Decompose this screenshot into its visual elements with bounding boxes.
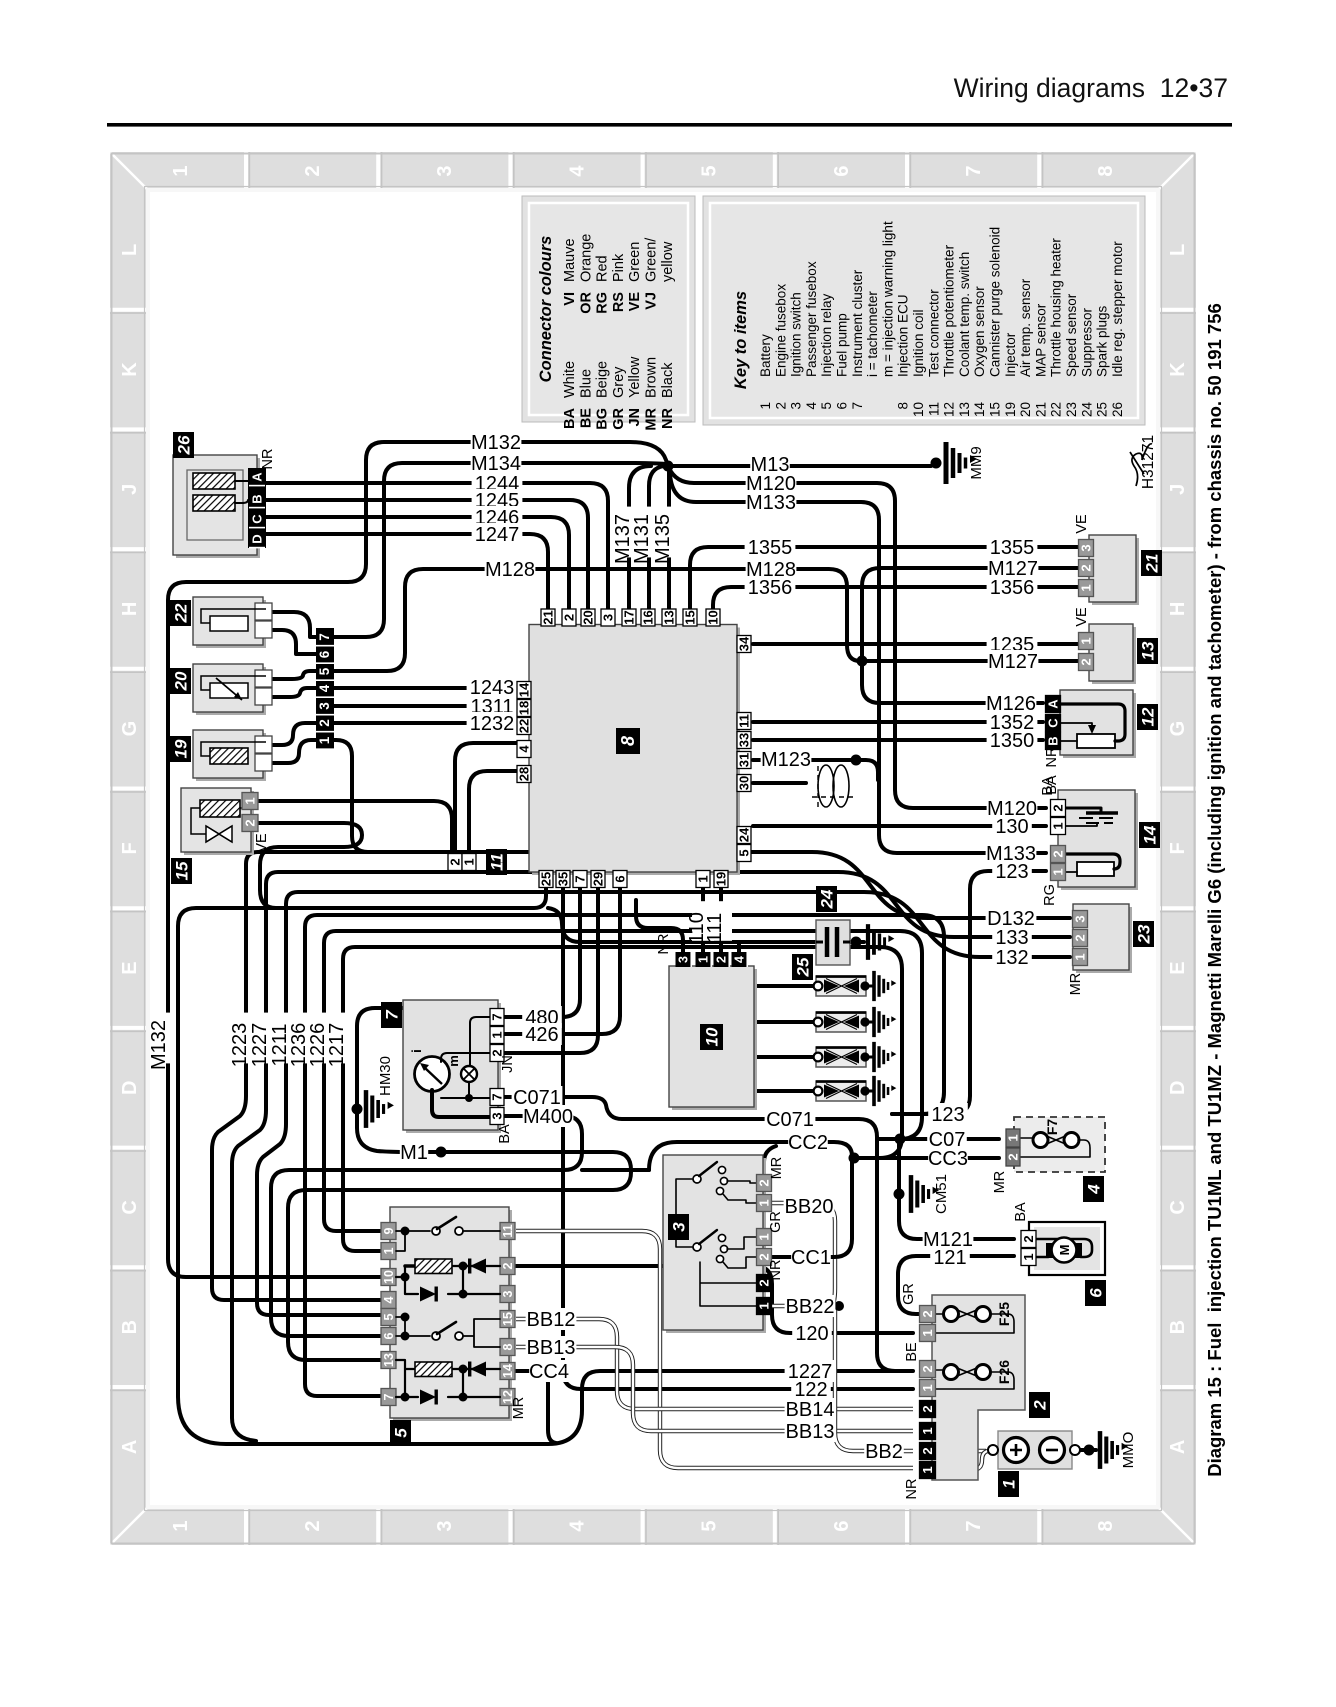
switch pin 1 — [757, 1298, 772, 1315]
net label M132 — [471, 431, 522, 453]
net label M123 — [761, 748, 812, 770]
svg-text:2: 2 — [757, 1179, 772, 1186]
ECU top pin 17 — [622, 609, 636, 626]
wire 1236 : band to relay pin 7 — [305, 915, 944, 1396]
wire M1 to relay pin13 — [288, 1109, 631, 1360]
net label 1350 — [987, 729, 1038, 751]
net label 123 — [928, 1103, 968, 1125]
svg-text:30: 30 — [737, 776, 752, 790]
svg-text:2: 2 — [317, 719, 332, 727]
svg-text:9: 9 — [382, 1227, 396, 1234]
heater symbol — [1066, 808, 1101, 812]
svg-text:m = injection warning light: m = injection warning light — [880, 221, 895, 377]
pump pin 2 — [1021, 1231, 1036, 1248]
net label CC1 — [791, 1246, 831, 1268]
wire CC3 line — [854, 1156, 999, 1160]
svg-text:MAP sensor: MAP sensor — [1033, 303, 1048, 377]
svg-text:MR: MR — [511, 1397, 527, 1420]
item 7 instrument cluster — [406, 1003, 501, 1133]
svg-text:7: 7 — [573, 875, 588, 882]
ECU bottom pin 1 — [696, 871, 710, 888]
svg-text:D: D — [250, 534, 265, 543]
net label 120 — [792, 1322, 832, 1344]
svg-text:4: 4 — [317, 684, 332, 692]
ECU bottom pin 6 — [613, 871, 627, 888]
MAP pin 1 — [1079, 580, 1094, 597]
svg-text:6: 6 — [831, 1520, 853, 1531]
svg-text:15: 15 — [173, 861, 192, 880]
svg-text:2: 2 — [773, 402, 788, 410]
svg-text:BB13: BB13 — [527, 1337, 576, 1359]
ECU right pin 24 — [737, 827, 751, 844]
ECU bottom pin 19 — [714, 871, 728, 888]
svg-text:14: 14 — [972, 402, 987, 418]
svg-text:3: 3 — [1079, 544, 1094, 551]
relay pin 14 — [500, 1363, 515, 1380]
svg-text:132: 132 — [995, 947, 1028, 969]
speed pin 2 — [1073, 930, 1088, 947]
svg-text:Green: Green — [627, 242, 643, 282]
wire 1350 ECU pin33 to pot pin B — [753, 738, 1043, 742]
svg-text:2: 2 — [1079, 564, 1094, 571]
svg-text:2: 2 — [1073, 934, 1088, 941]
svg-text:NR: NR — [904, 1479, 920, 1500]
svg-text:D: D — [119, 1081, 141, 1095]
svg-text:Battery: Battery — [758, 334, 773, 377]
svg-text:2: 2 — [715, 956, 729, 963]
relay pin 5 — [381, 1309, 396, 1326]
ground MM9 — [946, 442, 977, 484]
wire 111 ECU pin19 to coil pin2 — [719, 886, 723, 952]
fusebox pin BB13 — [920, 1423, 936, 1440]
thin wire BB20/BB22/BB2 — [772, 1203, 913, 1451]
spark plug 1 — [816, 976, 866, 996]
svg-text:BA: BA — [1044, 775, 1060, 795]
svg-text:BG: BG — [595, 408, 611, 430]
svg-text:1355: 1355 — [990, 537, 1035, 559]
spark plug 3 — [816, 1047, 866, 1067]
wire 1244 item26 A to ECU pin3 — [266, 483, 608, 611]
frame border tiles — [110, 152, 1196, 1545]
cluster pin 7 — [490, 1089, 504, 1106]
net label 1311 — [467, 695, 518, 717]
svg-text:F: F — [1167, 842, 1189, 854]
legend: connector colours — [522, 196, 695, 422]
svg-text:1: 1 — [170, 165, 192, 176]
svg-text:Injection ECU: Injection ECU — [896, 294, 911, 377]
svg-text:m: m — [446, 1055, 461, 1067]
coil 26a — [193, 473, 235, 489]
svg-text:8: 8 — [1095, 1520, 1117, 1531]
svg-text:28: 28 — [517, 767, 532, 781]
svg-text:K: K — [1167, 362, 1189, 377]
wire ECU pin30 stub — [753, 781, 806, 785]
svg-text:4: 4 — [733, 956, 747, 963]
ground CM51 — [911, 1175, 939, 1213]
cluster pin 2 — [490, 1045, 504, 1062]
svg-text:BE: BE — [904, 1342, 920, 1362]
svg-text:1: 1 — [697, 956, 711, 963]
svg-text:L: L — [1167, 244, 1189, 256]
wire M134 (item 22 ground) — [333, 463, 665, 637]
item 10 ignition coil — [672, 969, 757, 1110]
thin wire BB13 — [516, 1347, 913, 1431]
svg-text:Injector: Injector — [1003, 332, 1018, 377]
wire suppressor feed — [548, 908, 815, 942]
net label M13 — [750, 453, 790, 475]
net label 132 — [992, 946, 1032, 968]
wire 1227/pin25 bottom bus — [178, 886, 913, 1444]
svg-text:5: 5 — [819, 402, 834, 410]
svg-text:C: C — [1167, 1200, 1189, 1214]
svg-text:3: 3 — [501, 1290, 515, 1297]
svg-text:10: 10 — [703, 1027, 722, 1046]
svg-text:4: 4 — [1085, 1184, 1104, 1195]
net label M137 (vertical) — [618, 507, 640, 558]
svg-text:A: A — [1167, 1440, 1189, 1454]
wire 1337 test connector pin1 to ECU pin28 — [469, 771, 517, 852]
svg-text:BB20: BB20 — [785, 1196, 834, 1218]
svg-text:VE: VE — [627, 292, 643, 312]
svg-text:Pink: Pink — [611, 253, 627, 282]
svg-text:Grey: Grey — [611, 366, 627, 398]
svg-text:29: 29 — [591, 872, 606, 886]
svg-text:2: 2 — [1031, 1400, 1050, 1411]
net label 480 — [522, 1006, 562, 1028]
svg-text:2: 2 — [1021, 1235, 1036, 1242]
ECU top pin 3 — [601, 609, 615, 626]
svg-text:130: 130 — [995, 816, 1028, 838]
svg-text:VE: VE — [254, 833, 270, 853]
svg-text:2: 2 — [920, 1405, 935, 1412]
wire 110 ECU pin1 to coil pin1 — [701, 886, 705, 952]
svg-text:CM51: CM51 — [933, 1174, 950, 1214]
svg-text:M: M — [1057, 1245, 1072, 1256]
svg-text:10: 10 — [382, 1270, 396, 1284]
svg-text:7: 7 — [317, 633, 332, 641]
svg-text:20: 20 — [1018, 402, 1033, 417]
wire 1211 : band to relay pin 5 — [257, 892, 1070, 1315]
item 24 suppressor — [816, 920, 850, 965]
svg-text:MR: MR — [992, 1171, 1008, 1194]
svg-text:G: G — [1167, 721, 1189, 737]
switch pin 2 — [757, 1175, 772, 1192]
ECU bottom pin 7 — [573, 871, 587, 888]
svg-text:2: 2 — [920, 1365, 935, 1372]
wire ECU pin29 to cluster pin2 — [505, 886, 598, 1053]
wire M135 ECU pin13 to ground dot — [667, 470, 671, 611]
wire CC1 switch pin2 up to CC3 dot — [772, 1160, 852, 1257]
ground (plug 3) — [874, 1042, 896, 1072]
wire item20 pinA to strip5 — [272, 671, 317, 679]
svg-text:14: 14 — [517, 682, 532, 697]
svg-text:5: 5 — [382, 1313, 396, 1320]
F7 pin 1 — [1006, 1129, 1020, 1147]
svg-text:D: D — [1167, 1081, 1189, 1095]
svg-text:GR: GR — [611, 407, 627, 429]
net label 1247 — [472, 523, 523, 545]
ECU bottom pin 29 — [591, 871, 605, 888]
svg-text:Passenger fusebox: Passenger fusebox — [804, 261, 819, 377]
svg-text:111: 111 — [704, 913, 726, 943]
svg-text:26: 26 — [175, 435, 194, 455]
item 20 air temp sensor — [196, 667, 266, 715]
svg-text:Idle reg. stepper motor: Idle reg. stepper motor — [1110, 241, 1125, 377]
item 19 injector — [196, 733, 266, 781]
svg-text:122: 122 — [794, 1379, 827, 1401]
svg-text:11: 11 — [926, 402, 941, 416]
ECU top pin 2 — [562, 609, 576, 626]
junction dot ground confluence — [663, 461, 674, 472]
net label M120 — [746, 472, 797, 494]
net label M400 — [523, 1105, 574, 1127]
svg-text:M128: M128 — [485, 559, 535, 581]
svg-text:7: 7 — [850, 402, 865, 410]
net label 1217 (vertical) — [332, 1013, 354, 1064]
svg-text:13: 13 — [662, 610, 677, 624]
svg-text:MMO: MMO — [1120, 1432, 1137, 1469]
wire coil pin4 up to suppressor line — [737, 942, 741, 952]
relay coil 2 — [396, 1360, 500, 1397]
svg-text:Orange: Orange — [578, 234, 594, 282]
svg-text:19: 19 — [1003, 402, 1018, 417]
pot pin A — [1046, 696, 1061, 713]
svg-text:8: 8 — [896, 402, 911, 410]
svg-text:1223: 1223 — [229, 1023, 251, 1068]
svg-text:2: 2 — [1006, 1153, 1021, 1160]
svg-text:B: B — [1167, 1320, 1189, 1334]
svg-text:5: 5 — [392, 1428, 411, 1438]
item 14 oxygen sensor — [1061, 793, 1138, 890]
svg-text:2: 2 — [501, 1262, 515, 1269]
wire 1235 ECU pin34 to coolant switch pin1 — [753, 642, 1079, 646]
net label 1356 — [987, 576, 1038, 598]
fuse F25 — [951, 1308, 983, 1321]
net label 1232 — [467, 712, 518, 734]
wire coil pin3 up-left — [636, 900, 683, 952]
svg-text:17: 17 — [622, 610, 637, 624]
wire 1247 item26 D to ECU pin21 — [266, 534, 548, 611]
relay pin 6 — [381, 1328, 396, 1345]
svg-text:1: 1 — [757, 1199, 772, 1206]
wire C07 line to F7 pin1 — [877, 1137, 999, 1141]
relay pin 11 — [500, 1223, 515, 1240]
wire CC4 relay pin14 — [516, 1371, 556, 1443]
net label CC3 — [928, 1147, 968, 1169]
svg-text:Blue: Blue — [578, 369, 594, 398]
ECU left pin 18 — [517, 700, 531, 717]
thin wires battery — [936, 1449, 986, 1453]
svg-text:4: 4 — [566, 165, 588, 177]
ECU left pin 4 — [517, 741, 531, 758]
ECU right pin 34 — [737, 636, 751, 653]
ground (plug 2) — [874, 1007, 896, 1037]
svg-text:C: C — [119, 1200, 141, 1214]
svg-text:C071: C071 — [766, 1109, 814, 1131]
wire suppressor to ground — [848, 940, 864, 944]
svg-text:5: 5 — [699, 1520, 721, 1531]
svg-text:MR: MR — [1068, 973, 1084, 996]
svg-text:F26: F26 — [996, 1360, 1012, 1384]
relay pin 3 — [500, 1286, 515, 1303]
svg-text:G: G — [119, 721, 141, 737]
svg-text:1: 1 — [1051, 822, 1066, 829]
MAP pin 2 — [1079, 560, 1094, 577]
svg-text:Injection relay: Injection relay — [819, 293, 834, 377]
ground MMO — [1100, 1431, 1128, 1469]
svg-text:24: 24 — [1079, 402, 1094, 418]
svg-text:Black: Black — [660, 362, 676, 398]
net label M133 — [986, 842, 1037, 864]
svg-text:Yellow: Yellow — [627, 356, 643, 398]
svg-text:1: 1 — [758, 402, 773, 410]
relay pin 10 — [381, 1269, 396, 1286]
wire 121 to fuse F25 pin2 — [898, 1256, 1014, 1314]
svg-text:1: 1 — [757, 1233, 772, 1240]
net label 1245 — [472, 489, 523, 511]
item26 pin B — [249, 491, 265, 507]
ECU left pin 14 — [517, 682, 531, 699]
svg-text:12: 12 — [1139, 707, 1158, 726]
svg-text:OR: OR — [578, 291, 594, 313]
net label 1244 — [472, 472, 523, 494]
svg-text:H31271: H31271 — [1140, 435, 1157, 489]
item26 pin A — [249, 469, 265, 485]
svg-text:GR: GR — [901, 1283, 917, 1305]
wire M127 lower to coolant switch pin2 — [862, 659, 1079, 663]
svg-text:25: 25 — [794, 957, 813, 977]
legend: key to items — [703, 196, 1145, 425]
svg-text:Key to items: Key to items — [732, 291, 750, 389]
item 21 MAP sensor — [1092, 538, 1139, 605]
svg-text:2: 2 — [302, 1520, 324, 1531]
svg-text:BA: BA — [562, 407, 578, 428]
svg-text:7: 7 — [382, 1393, 396, 1400]
svg-text:MR: MR — [769, 1157, 785, 1180]
ECU top pin 16 — [641, 609, 655, 626]
ground (plug 4) — [874, 1076, 896, 1106]
svg-text:Ignition coil: Ignition coil — [911, 309, 926, 377]
warning light m — [461, 1066, 477, 1082]
relay switch 2 — [396, 1317, 500, 1347]
svg-text:CC2: CC2 — [788, 1132, 828, 1154]
fusebox pin BB2 — [920, 1443, 936, 1460]
svg-text:24: 24 — [818, 889, 837, 909]
net label M135 (vertical) — [658, 507, 680, 558]
ECU bottom pin 35 — [556, 871, 570, 888]
svg-text:6: 6 — [317, 650, 332, 658]
F25 pin 2 — [920, 1306, 936, 1323]
svg-text:23: 23 — [1064, 402, 1079, 417]
svg-text:VI: VI — [562, 292, 578, 306]
net label 1223 (vertical) — [235, 1013, 257, 1064]
svg-text:6: 6 — [382, 1332, 396, 1339]
svg-text:C: C — [1046, 718, 1061, 728]
wire M137 ECU pin17 to ground dot — [629, 466, 651, 611]
fuse F26 — [951, 1366, 983, 1379]
switch pin 2 — [757, 1275, 772, 1292]
relay pin 15 — [500, 1311, 515, 1328]
svg-text:Instrument cluster: Instrument cluster — [850, 269, 865, 377]
svg-text:3: 3 — [1073, 915, 1088, 922]
svg-text:Red: Red — [595, 255, 611, 282]
svg-text:1: 1 — [696, 875, 711, 882]
svg-text:22: 22 — [1049, 402, 1064, 417]
svg-text:Fuel pump: Fuel pump — [835, 313, 850, 377]
wire 1311 strip pin3 to ECU pin18 — [333, 704, 517, 708]
svg-text:RS: RS — [611, 292, 627, 312]
net label 122 — [791, 1378, 831, 1400]
relay pin 8 — [500, 1339, 515, 1356]
wire C07 down to CM51 and M121 — [899, 1139, 1014, 1239]
svg-text:Ignition switch: Ignition switch — [789, 292, 804, 377]
svg-text:6: 6 — [835, 402, 850, 410]
svg-text:C: C — [250, 514, 265, 524]
svg-text:23: 23 — [1135, 924, 1154, 944]
F26 pin 2 — [920, 1361, 936, 1378]
svg-text:15: 15 — [501, 1312, 515, 1326]
svg-text:yellow: yellow — [660, 241, 676, 282]
wire M126 to throttle pot pin A — [862, 661, 1043, 703]
svg-text:15: 15 — [683, 610, 698, 624]
net label 1356 — [745, 576, 796, 598]
item 2 engine fusebox — [932, 1295, 1025, 1480]
svg-text:2: 2 — [243, 819, 258, 826]
svg-text:JN: JN — [627, 408, 643, 427]
svg-text:13: 13 — [382, 1353, 396, 1367]
svg-text:Mauve: Mauve — [562, 238, 578, 282]
fuse F7 — [1041, 1134, 1072, 1147]
svg-text:BA: BA — [497, 1124, 513, 1144]
relay pin 4 — [381, 1292, 396, 1309]
wire 1223 : band to relay pin 4 — [212, 852, 1070, 1300]
oxygen pin 2 — [1051, 800, 1066, 817]
svg-text:1: 1 — [1000, 1479, 1019, 1488]
wire M128 from connector strip pin5 — [333, 569, 860, 671]
relay pin 9 — [381, 1223, 396, 1240]
svg-text:21: 21 — [1143, 554, 1162, 574]
svg-text:5: 5 — [699, 165, 721, 176]
coil 26b — [193, 495, 235, 511]
svg-text:RG: RG — [1042, 884, 1058, 906]
net label C071 — [512, 1086, 563, 1108]
wire 1245 item26 B to ECU pin20 — [266, 500, 588, 611]
item 4 passenger fusebox F7 — [1014, 1117, 1105, 1172]
svg-text:M1: M1 — [400, 1142, 428, 1164]
wire item19 pinB to strip1 — [272, 740, 317, 763]
svg-text:i: i — [409, 1049, 424, 1053]
item 6 fuel pump — [1029, 1222, 1105, 1275]
wire 122 ECU pin35 to fuse F26 — [563, 886, 913, 1389]
svg-text:11: 11 — [488, 853, 507, 871]
connector strip pins 7..1 — [316, 628, 334, 750]
net label CC4 — [529, 1360, 569, 1382]
svg-text:M127: M127 — [988, 651, 1038, 673]
wire HM30 ground link — [357, 1008, 403, 1109]
svg-text:M132: M132 — [148, 1020, 170, 1070]
svg-text:5: 5 — [317, 667, 332, 675]
svg-text:6: 6 — [831, 165, 853, 176]
svg-text:2: 2 — [302, 165, 324, 176]
item 12 throttle potentiometer — [1063, 693, 1136, 758]
svg-text:4: 4 — [517, 745, 532, 753]
svg-text:121: 121 — [933, 1247, 966, 1269]
svg-text:NR: NR — [660, 407, 676, 428]
svg-text:5: 5 — [737, 849, 752, 856]
relay pin 1 — [381, 1243, 396, 1260]
svg-text:E: E — [1167, 961, 1189, 974]
svg-text:8: 8 — [1095, 165, 1117, 176]
